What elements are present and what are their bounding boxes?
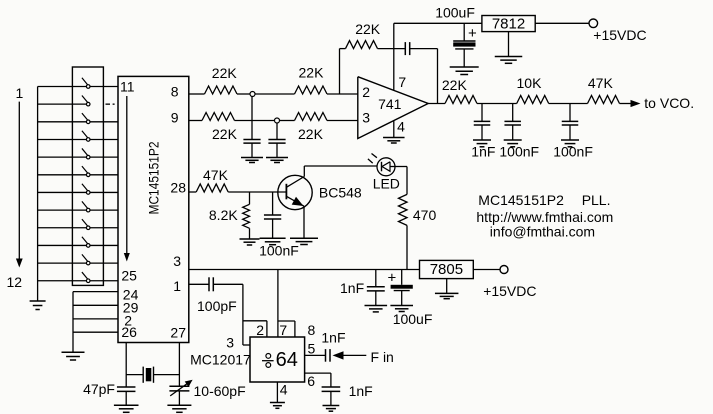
- svg-text:8: 8: [308, 322, 316, 338]
- svg-text:PLL.: PLL.: [582, 192, 611, 208]
- svg-text:MC12017: MC12017: [190, 352, 251, 368]
- svg-text:22K: 22K: [212, 65, 238, 81]
- svg-text:BC548: BC548: [319, 185, 362, 201]
- svg-text:1nF: 1nF: [321, 329, 345, 345]
- svg-text:100uF: 100uF: [393, 311, 433, 327]
- svg-text:7805: 7805: [430, 261, 463, 278]
- svg-text:100uF: 100uF: [435, 5, 475, 21]
- svg-text:22K: 22K: [212, 126, 238, 142]
- svg-text:MC145151P2: MC145151P2: [478, 192, 564, 208]
- svg-text:3: 3: [362, 110, 370, 126]
- svg-text:47pF: 47pF: [83, 381, 115, 397]
- svg-text:10-60pF: 10-60pF: [194, 383, 246, 399]
- svg-text:1nF: 1nF: [349, 383, 373, 399]
- svg-text:F in: F in: [371, 349, 394, 365]
- svg-text:27: 27: [170, 325, 186, 341]
- svg-text:47K: 47K: [203, 167, 229, 183]
- svg-text:64: 64: [276, 349, 298, 371]
- svg-text:7812: 7812: [492, 16, 525, 33]
- svg-text:28: 28: [170, 180, 186, 196]
- svg-text:1nF: 1nF: [340, 280, 364, 296]
- svg-text:12: 12: [7, 274, 23, 290]
- svg-text:MC145151P2: MC145151P2: [147, 142, 162, 215]
- svg-text:22K: 22K: [299, 65, 325, 81]
- svg-text:22K: 22K: [298, 126, 324, 142]
- svg-text:25: 25: [121, 268, 137, 284]
- svg-text:+: +: [388, 270, 397, 287]
- svg-text:6: 6: [307, 373, 315, 389]
- svg-text:3: 3: [173, 253, 181, 269]
- svg-text:2: 2: [362, 84, 370, 100]
- svg-text:100pF: 100pF: [197, 298, 237, 314]
- svg-text:100nF: 100nF: [553, 144, 593, 160]
- svg-text:1nF: 1nF: [471, 144, 495, 160]
- svg-text:470: 470: [413, 207, 437, 223]
- svg-text:4: 4: [280, 382, 288, 398]
- svg-text:7: 7: [398, 74, 406, 90]
- svg-text:100nF: 100nF: [499, 144, 539, 160]
- svg-text:info@fmthai.com: info@fmthai.com: [490, 224, 595, 240]
- svg-text:+15VDC: +15VDC: [483, 283, 536, 299]
- svg-text:5: 5: [308, 341, 316, 357]
- svg-text:26: 26: [121, 324, 137, 340]
- svg-text:1: 1: [16, 85, 24, 101]
- svg-text:741: 741: [378, 96, 402, 112]
- svg-text:3: 3: [226, 334, 234, 350]
- svg-text:7: 7: [279, 322, 287, 338]
- svg-text:8.2K: 8.2K: [209, 207, 238, 223]
- svg-text:22K: 22K: [355, 21, 381, 37]
- svg-text:LED: LED: [373, 176, 400, 192]
- svg-text:4: 4: [397, 119, 405, 135]
- svg-text:10K: 10K: [517, 75, 543, 91]
- svg-text:22K: 22K: [442, 77, 468, 93]
- svg-text:+15VDC: +15VDC: [593, 27, 646, 43]
- svg-text:8: 8: [171, 84, 179, 100]
- svg-text:47K: 47K: [588, 75, 614, 91]
- svg-text:2: 2: [256, 322, 264, 338]
- svg-text:100nF: 100nF: [259, 243, 299, 259]
- svg-text:1: 1: [173, 278, 181, 294]
- svg-text:11: 11: [120, 78, 135, 94]
- svg-text:9: 9: [171, 110, 179, 126]
- svg-text:to VCO.: to VCO.: [644, 95, 694, 111]
- svg-text:+: +: [468, 25, 477, 42]
